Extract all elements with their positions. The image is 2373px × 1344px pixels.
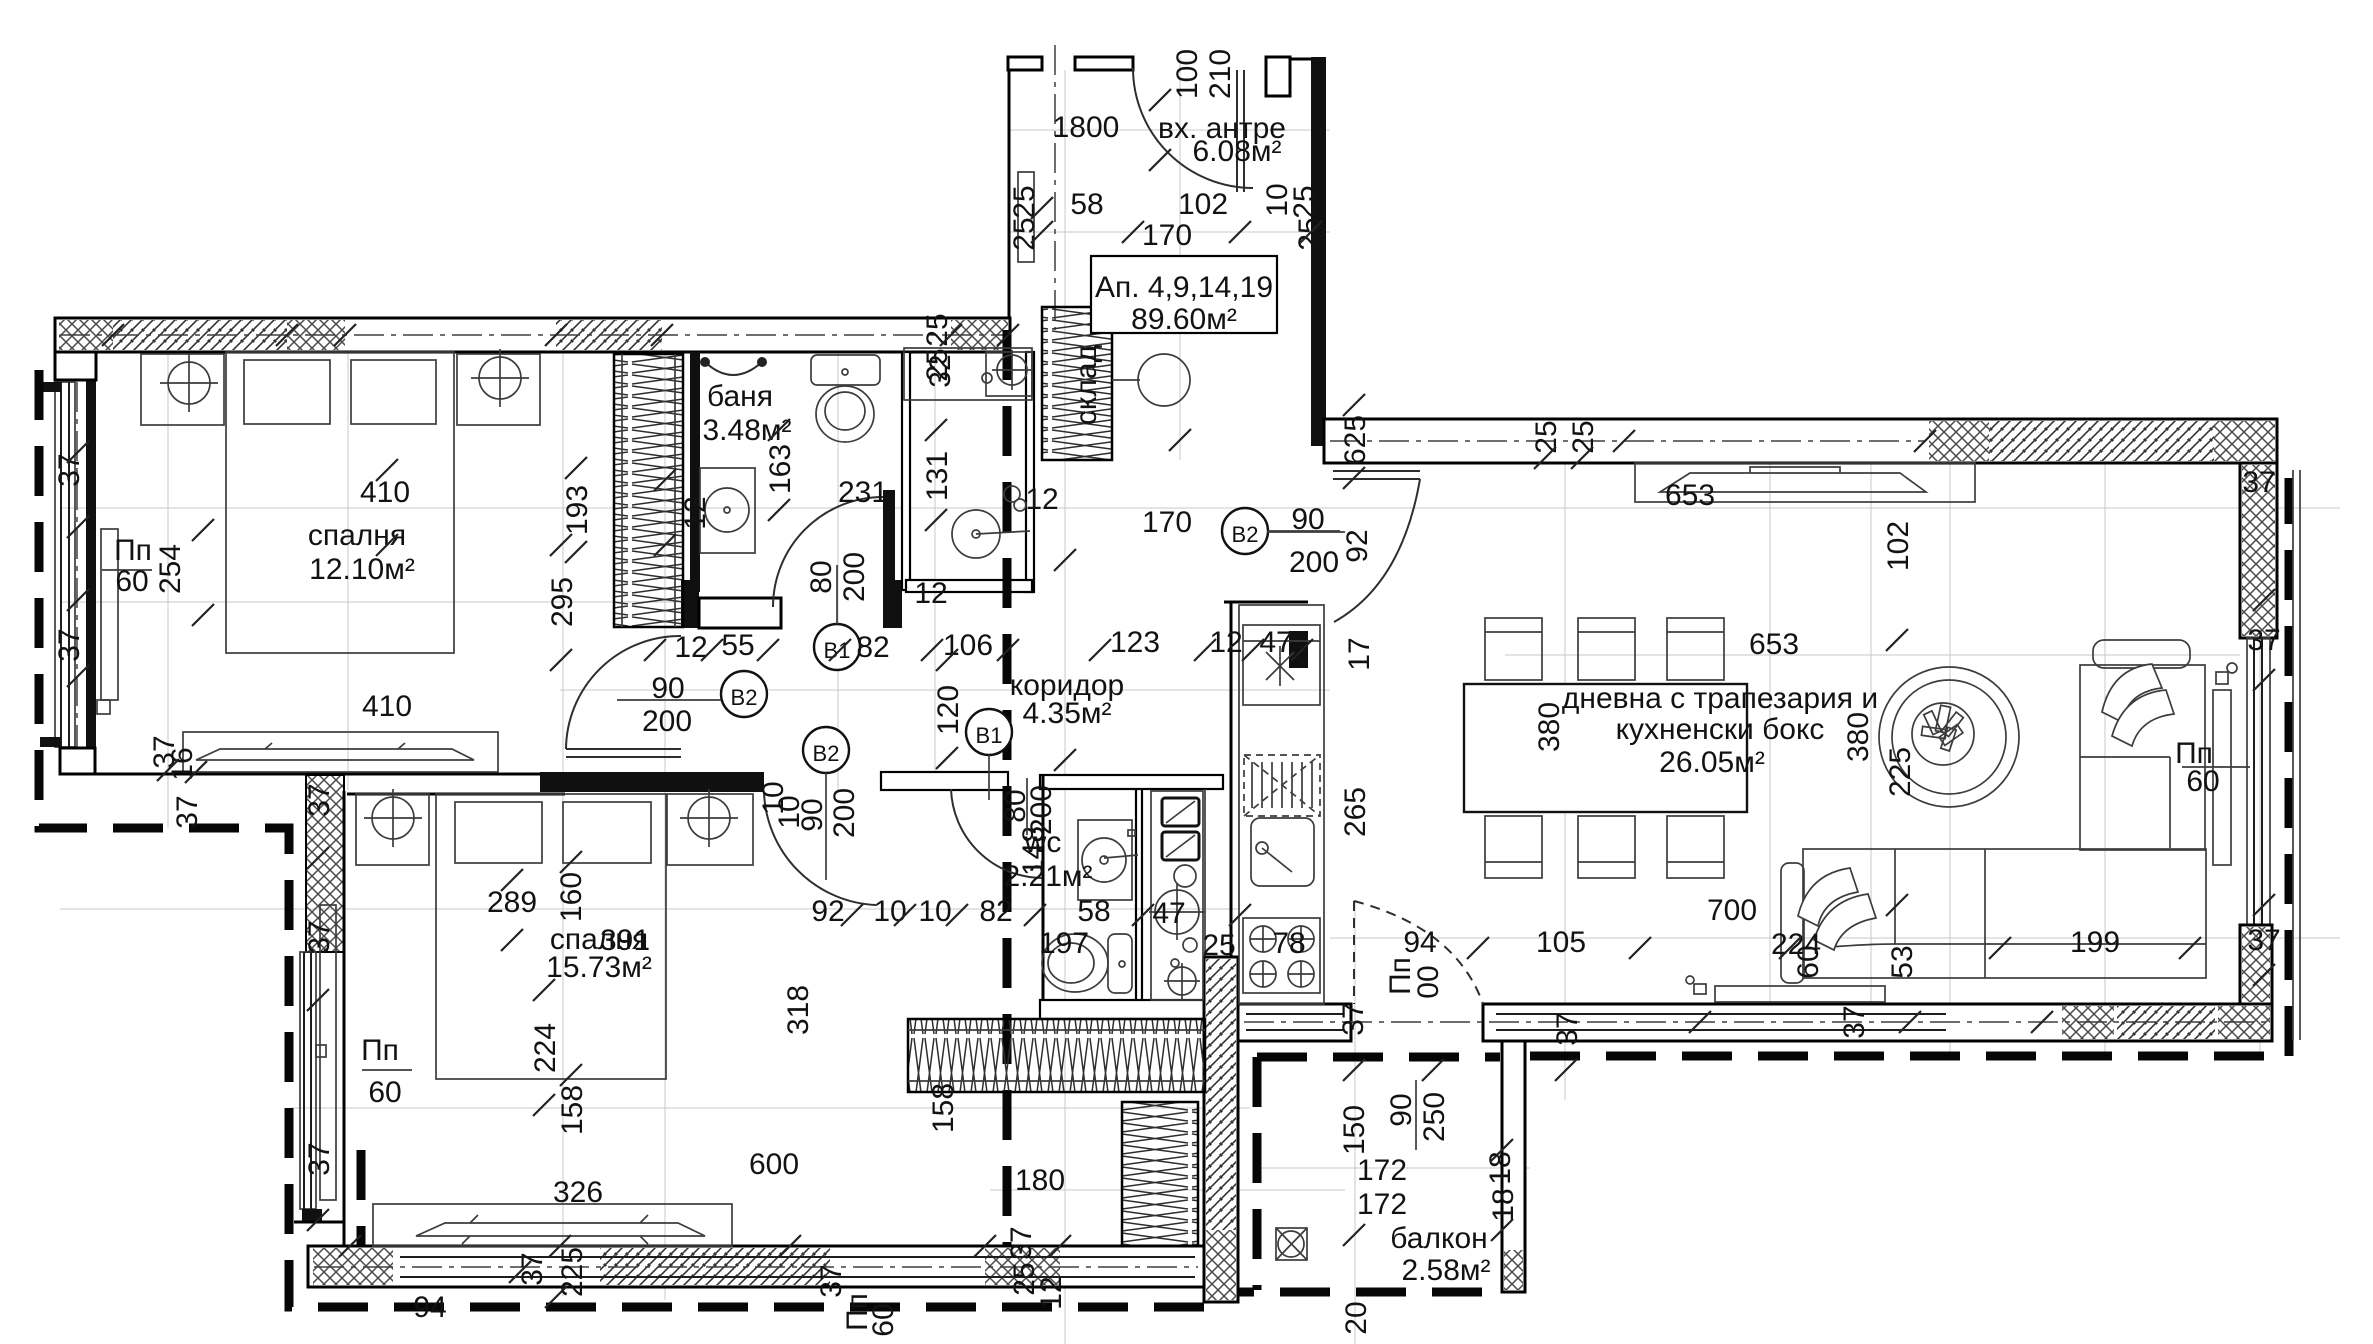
svg-text:37: 37 [1337,1002,1370,1035]
svg-text:224: 224 [529,1023,562,1073]
svg-text:37: 37 [53,453,86,486]
svg-text:318: 318 [782,985,815,1035]
svg-text:12: 12 [914,577,947,610]
svg-text:102: 102 [1178,188,1228,221]
svg-text:58: 58 [1070,188,1103,221]
svg-text:200: 200 [1025,785,1058,835]
svg-text:94: 94 [413,1291,446,1324]
svg-text:105: 105 [1536,926,1586,959]
svg-text:балкон: балкон [1390,1222,1487,1255]
svg-text:склад: склад [1070,345,1103,425]
svg-text:47: 47 [1259,626,1292,659]
svg-text:120: 120 [932,685,965,735]
svg-text:231: 231 [838,476,888,509]
svg-text:4.35м²: 4.35м² [1022,697,1111,730]
svg-text:Пп: Пп [114,534,152,567]
svg-text:12: 12 [679,496,712,529]
svg-text:265: 265 [1339,787,1372,837]
svg-text:653: 653 [1665,479,1715,512]
svg-text:12.10м²: 12.10м² [309,553,415,586]
svg-text:37: 37 [303,920,336,953]
svg-text:47: 47 [1152,897,1185,930]
svg-text:380: 380 [1842,712,1875,762]
svg-text:250: 250 [1418,1092,1451,1142]
svg-text:200: 200 [1289,546,1339,579]
svg-text:197: 197 [1039,927,1089,960]
svg-text:6.08м²: 6.08м² [1192,135,1281,168]
svg-text:89.60м²: 89.60м² [1131,303,1237,336]
svg-text:193: 193 [561,485,594,535]
svg-text:60: 60 [867,1303,900,1336]
svg-text:180: 180 [1015,1164,1065,1197]
svg-text:380: 380 [1533,702,1566,752]
svg-text:92: 92 [1341,529,1374,562]
svg-text:37: 37 [2247,624,2280,657]
svg-text:123: 123 [1110,626,1160,659]
svg-text:172: 172 [1357,1154,1407,1187]
svg-text:289: 289 [487,886,537,919]
svg-text:спалня: спалня [308,519,406,552]
svg-text:25: 25 [1202,929,1235,962]
svg-text:80: 80 [805,560,838,593]
svg-text:25: 25 [1530,420,1563,453]
svg-text:600: 600 [749,1148,799,1181]
svg-text:37: 37 [815,1264,848,1297]
svg-text:225: 225 [1884,747,1917,797]
svg-text:53: 53 [1886,945,1919,978]
svg-text:90: 90 [1385,1093,1418,1126]
svg-text:В2: В2 [731,685,758,710]
svg-text:172: 172 [1357,1188,1407,1221]
svg-text:18: 18 [1484,1151,1517,1184]
svg-text:10: 10 [918,895,951,928]
svg-text:25: 25 [1567,420,1600,453]
svg-text:210: 210 [1204,49,1237,99]
svg-text:55: 55 [721,629,754,662]
svg-text:100: 100 [1171,49,1204,99]
svg-text:12: 12 [1209,626,1242,659]
svg-text:90: 90 [651,672,684,705]
svg-text:37: 37 [303,783,336,816]
svg-text:625: 625 [1339,415,1372,465]
svg-text:37: 37 [2242,466,2275,499]
svg-text:60: 60 [2186,765,2219,798]
svg-text:В2: В2 [1232,522,1259,547]
svg-text:2.58м²: 2.58м² [1401,1254,1490,1287]
svg-text:92: 92 [811,895,844,928]
svg-text:37: 37 [2247,924,2280,957]
svg-text:90: 90 [796,798,829,831]
svg-text:254: 254 [154,544,187,594]
svg-text:653: 653 [1749,628,1799,661]
svg-text:26.05м²: 26.05м² [1659,746,1765,779]
svg-text:158: 158 [556,1085,589,1135]
svg-text:200: 200 [642,705,692,738]
svg-text:295: 295 [546,577,579,627]
svg-text:158: 158 [927,1083,960,1133]
svg-text:200: 200 [838,552,871,602]
svg-text:94: 94 [1403,926,1436,959]
svg-text:82: 82 [856,631,889,664]
svg-text:58: 58 [1077,895,1110,928]
svg-text:37: 37 [303,1142,336,1175]
svg-text:163: 163 [764,444,797,494]
svg-text:225: 225 [556,1247,589,1297]
svg-text:25: 25 [921,348,954,381]
svg-text:150: 150 [1338,1105,1371,1155]
svg-text:37: 37 [516,1252,549,1285]
svg-text:37: 37 [53,628,86,661]
svg-text:37: 37 [1838,1005,1871,1038]
svg-text:дневна с трапезария и: дневна с трапезария и [1562,682,1878,715]
svg-text:Пп: Пп [361,1034,399,1067]
svg-text:700: 700 [1707,894,1757,927]
svg-text:В1: В1 [976,723,1003,748]
svg-text:37: 37 [171,795,204,828]
svg-text:12: 12 [1025,483,1058,516]
svg-text:В2: В2 [813,741,840,766]
svg-text:25: 25 [1288,185,1321,218]
svg-text:17: 17 [1343,637,1376,670]
svg-text:60: 60 [1792,945,1825,978]
svg-text:60: 60 [368,1076,401,1109]
svg-text:170: 170 [1142,219,1192,252]
svg-text:16: 16 [166,747,199,780]
svg-text:25: 25 [921,313,954,346]
svg-text:37: 37 [1551,1012,1584,1045]
svg-text:170: 170 [1142,506,1192,539]
svg-text:410: 410 [360,476,410,509]
svg-text:Ап. 4,9,14,19: Ап. 4,9,14,19 [1095,271,1273,304]
svg-text:37: 37 [1005,1226,1038,1259]
svg-text:В1: В1 [824,638,851,663]
svg-text:20: 20 [1340,1301,1373,1334]
svg-text:10: 10 [873,895,906,928]
svg-text:199: 199 [2070,926,2120,959]
svg-text:кухненски бокс: кухненски бокс [1616,713,1825,746]
svg-text:баня: баня [707,380,773,413]
svg-text:18: 18 [1487,1188,1520,1221]
svg-text:200: 200 [828,788,861,838]
svg-text:60: 60 [115,565,148,598]
svg-text:82: 82 [979,895,1012,928]
svg-text:00: 00 [1412,965,1445,998]
svg-text:102: 102 [1882,521,1915,571]
svg-text:12: 12 [1035,1276,1068,1309]
svg-text:25: 25 [1008,217,1041,250]
svg-text:90: 90 [1291,503,1324,536]
svg-text:391: 391 [600,924,650,957]
svg-text:131: 131 [921,451,954,501]
svg-text:326: 326 [553,1176,603,1209]
svg-text:1800: 1800 [1053,111,1120,144]
svg-text:160: 160 [555,872,588,922]
svg-text:78: 78 [1272,927,1305,960]
svg-text:410: 410 [362,690,412,723]
